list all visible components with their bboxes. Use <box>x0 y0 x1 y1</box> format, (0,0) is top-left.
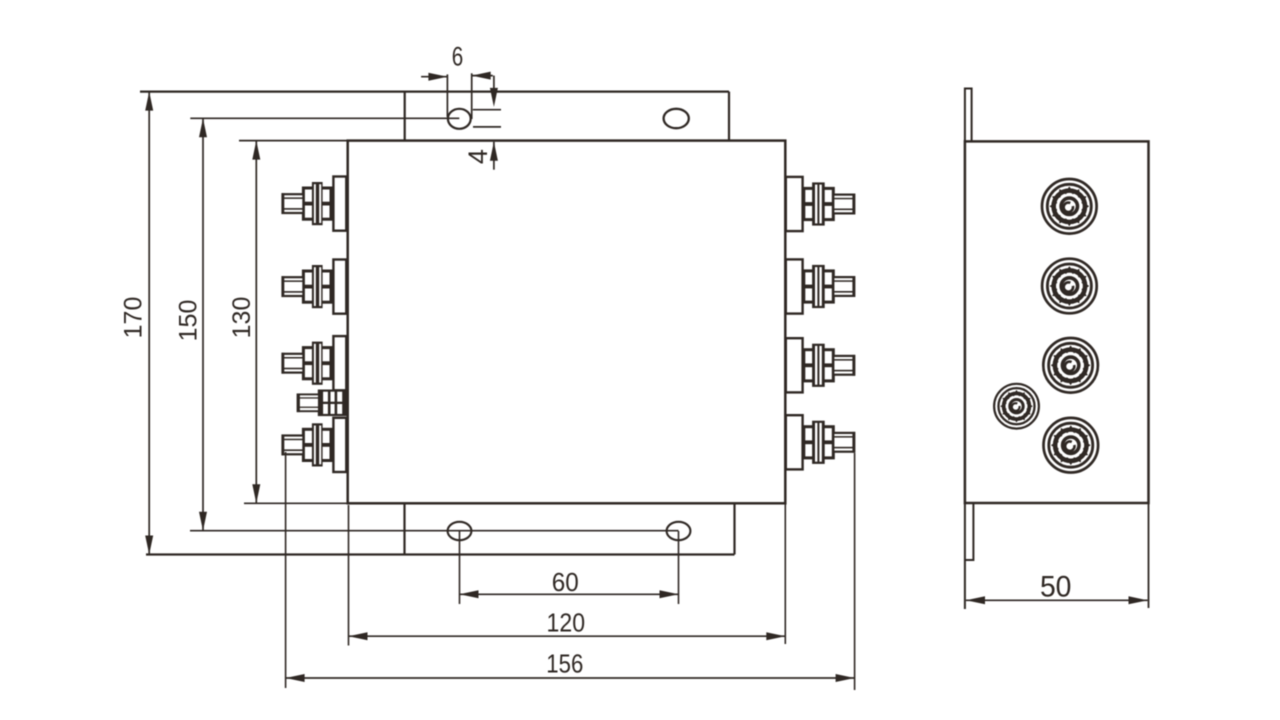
svg-text:150: 150 <box>175 300 203 342</box>
svg-text:50: 50 <box>1040 571 1072 604</box>
svg-text:6: 6 <box>452 42 464 72</box>
svg-text:4: 4 <box>463 149 493 164</box>
svg-text:156: 156 <box>546 649 583 679</box>
svg-text:130: 130 <box>228 297 256 339</box>
svg-text:60: 60 <box>552 567 579 597</box>
svg-text:120: 120 <box>547 608 586 638</box>
svg-text:170: 170 <box>120 297 148 339</box>
